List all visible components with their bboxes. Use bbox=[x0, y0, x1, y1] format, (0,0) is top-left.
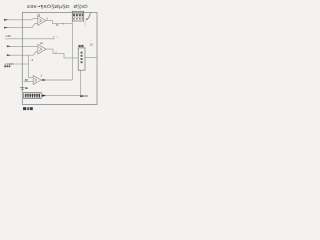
svg-text:Ø§¦8Ö: Ø§¦8Ö bbox=[74, 3, 89, 9]
svg-text:ck: ck bbox=[56, 37, 58, 39]
svg-text:CLK: CLK bbox=[5, 38, 10, 40]
svg-text:10: 10 bbox=[89, 42, 93, 46]
svg-text:8B: 8B bbox=[25, 78, 28, 82]
svg-text:£8¥-•¶8Ö§Øµ§Ð: £8¥-•¶8Ö§Øµ§Ð bbox=[27, 3, 70, 9]
